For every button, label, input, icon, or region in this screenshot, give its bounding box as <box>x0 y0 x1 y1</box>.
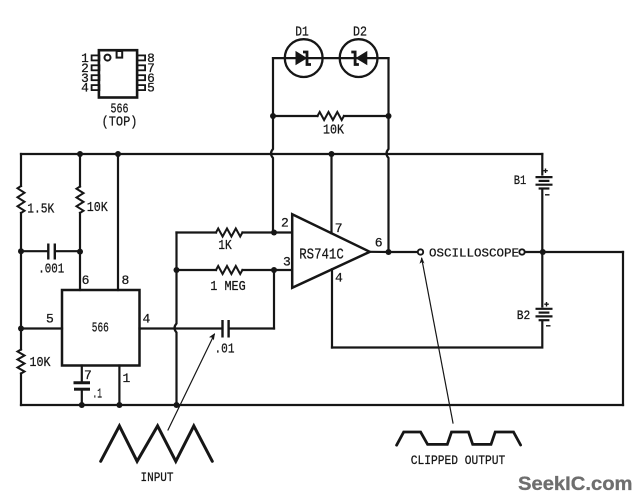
junction dot pin1 ground <box>116 402 122 408</box>
battery B1 <box>536 169 553 195</box>
junction dot feedback left <box>270 113 276 119</box>
IC package 566 top view body <box>99 50 137 97</box>
junction dot bus at 10K resistor top <box>77 151 83 157</box>
IC package notch square <box>117 51 123 58</box>
svg-text:B2: B2 <box>517 308 531 323</box>
wire 566 pin 7 <box>81 366 83 382</box>
label .1 <box>93 387 103 403</box>
junction dot bus at op-amp pin 7 <box>329 151 335 157</box>
junction dot output node <box>386 249 392 255</box>
resistor 1.5K <box>18 186 25 213</box>
label pin 7 op-amp <box>335 221 343 236</box>
svg-text:3: 3 <box>283 255 291 270</box>
label pin 4 of 566 <box>143 312 151 327</box>
pointer arrow to .01 capacitor <box>168 333 215 430</box>
wire op-amp output <box>370 251 418 253</box>
resistor 10K feedback <box>273 112 389 120</box>
wire ground leg from 1K left end down <box>175 233 177 406</box>
wire 566 pin 6 <box>79 252 81 290</box>
label 1K <box>218 238 232 254</box>
terminal circle oscilloscope right <box>519 249 524 254</box>
label pin 5 <box>46 312 54 327</box>
resistor 1 MEG <box>177 266 275 274</box>
wire midpoint to B2 <box>541 252 543 307</box>
junction dot op-amp pin3 <box>271 267 277 273</box>
resistor 10K vertical at pin6 column <box>77 154 84 252</box>
svg-text:2: 2 <box>281 216 289 231</box>
label 1.5K <box>27 202 54 218</box>
svg-text:1 MEG: 1 MEG <box>210 279 246 295</box>
svg-text:(TOP): (TOP) <box>102 115 138 131</box>
label INPUT <box>141 470 174 485</box>
resistor 10K lower left <box>18 350 25 374</box>
label D1 <box>295 24 309 40</box>
junction dot 1MEG left <box>174 267 180 273</box>
wire op-amp pin 7 to bus <box>330 154 332 233</box>
label B1 <box>514 173 527 188</box>
wire 566 pin 4 to capacitor <box>140 327 222 329</box>
wire into op-amp pin 2 <box>274 231 292 233</box>
wire left rail lower to ground bus <box>20 374 22 406</box>
svg-text:10K: 10K <box>30 355 51 371</box>
label pin 4 op-amp <box>335 270 343 285</box>
svg-text:7: 7 <box>335 221 343 236</box>
capacitor .01 <box>223 320 275 338</box>
IC package left pin numbers 1 2 3 4 <box>81 51 89 96</box>
svg-text:1K: 1K <box>218 238 232 254</box>
svg-text:OSCILLOSCOPE: OSCILLOSCOPE <box>429 247 519 261</box>
label OSCILLOSCOPE <box>429 247 519 261</box>
IC package pin-1 dot <box>105 55 111 61</box>
wire left rail middle <box>20 213 22 350</box>
IC package right pin numbers 8 7 6 5 <box>147 51 155 96</box>
svg-text:RS741C: RS741C <box>299 246 344 263</box>
IC U1 566 box <box>62 290 140 366</box>
svg-text:4: 4 <box>143 312 151 327</box>
label 1 MEG <box>210 279 246 295</box>
svg-text:INPUT: INPUT <box>141 470 174 485</box>
wire feedback left leg crossing bus down to pin2 node <box>271 116 273 233</box>
diode D1 symbol <box>296 52 311 65</box>
label pin 8 <box>121 273 129 288</box>
svg-text:.1: .1 <box>93 387 103 403</box>
svg-text:4: 4 <box>81 81 89 96</box>
svg-text:B1: B1 <box>514 173 527 188</box>
svg-text:CLIPPED OUTPUT: CLIPPED OUTPUT <box>411 453 506 468</box>
svg-text:6: 6 <box>375 236 383 251</box>
svg-text:5: 5 <box>147 81 155 96</box>
junction dot ground leg at bus <box>174 402 180 408</box>
label B2 <box>517 308 531 323</box>
IC package label 566 <box>111 102 129 118</box>
wire oscilloscope right to battery node <box>525 251 623 253</box>
svg-text:1: 1 <box>123 371 131 386</box>
svg-text:.01: .01 <box>215 342 235 358</box>
svg-text:8: 8 <box>121 273 129 288</box>
svg-text:6: 6 <box>82 273 90 288</box>
diode D1 circle <box>285 39 323 77</box>
junction dot pin5 left rail <box>18 326 24 332</box>
svg-text:566: 566 <box>92 321 109 337</box>
diode D2 circle <box>340 39 378 77</box>
resistor 1K <box>177 229 275 237</box>
wire diode branch horizontal <box>273 57 389 59</box>
svg-text:D1: D1 <box>295 24 309 40</box>
label .001 <box>38 262 64 278</box>
svg-text:10K: 10K <box>323 123 344 139</box>
label RS741C <box>299 246 344 263</box>
terminal circle oscilloscope left <box>418 249 423 254</box>
wire B1 to midpoint <box>541 190 543 252</box>
wire cap up to op-amp pin 3 node <box>273 270 275 329</box>
diode D2 symbol <box>351 52 367 65</box>
junction dot op-amp pin2 <box>271 230 277 236</box>
label CLIPPED OUTPUT <box>411 453 506 468</box>
wire diode branch right leg down <box>387 58 389 116</box>
IC package left pin stubs <box>92 55 100 90</box>
IC package right pin stubs <box>137 55 145 90</box>
wire V+ top bus <box>21 153 542 155</box>
pointer arrow to oscilloscope terminal <box>420 257 454 423</box>
svg-text:SeekIC.com: SeekIC.com <box>518 473 633 495</box>
svg-text:D2: D2 <box>353 24 367 40</box>
junction dot bus at pin 8 <box>115 151 121 157</box>
svg-text:4: 4 <box>335 270 343 285</box>
wire 566 pin 5 <box>21 327 62 329</box>
junction dot battery midpoint <box>540 249 546 255</box>
wire 566 pin 1 <box>118 366 120 406</box>
junction dot pin7 ground <box>79 402 85 408</box>
wire into op-amp pin 3 <box>274 269 292 271</box>
waveform CLIPPED OUTPUT <box>397 432 521 445</box>
label 10K lower left <box>30 355 51 371</box>
label pin 7 of 566 <box>84 368 92 383</box>
wire left rail upper <box>20 154 22 186</box>
label pin 6 op-amp <box>375 236 383 251</box>
wire bus corner down to battery B1 <box>541 154 543 175</box>
wire ground bottom bus <box>21 404 623 406</box>
battery B2 <box>536 302 553 326</box>
svg-text:7: 7 <box>84 368 92 383</box>
label pin 3 <box>283 255 291 270</box>
label pin 6 <box>82 273 90 288</box>
op-amp U2 RS741C <box>292 214 370 288</box>
junction dot feedback right <box>386 113 392 119</box>
svg-text:.001: .001 <box>38 262 64 278</box>
wire op-amp pin 4 down <box>331 269 333 347</box>
svg-text:10K: 10K <box>87 200 108 216</box>
label D2 <box>353 24 367 40</box>
wire diode branch left leg down to feedback node <box>272 58 274 116</box>
watermark SeekIC.com <box>518 473 633 495</box>
svg-text:5: 5 <box>46 312 54 327</box>
label .01 <box>215 342 235 358</box>
svg-text:1.5K: 1.5K <box>27 202 54 218</box>
IC package label (TOP) <box>102 115 138 131</box>
label 10K mid <box>87 200 108 216</box>
capacitor .1 <box>74 383 91 405</box>
wire B2 down and V- line to op-amp pin4 <box>332 322 542 348</box>
wire feedback right leg crossing bus down to output node <box>387 116 389 252</box>
label pin 2 <box>281 216 289 231</box>
label 10K feedback <box>323 123 344 139</box>
junction dot .001 to pin6 <box>77 249 83 255</box>
wire 566 pin 8 <box>117 154 119 290</box>
junction dot .001 left rail <box>18 248 24 254</box>
capacitor .001 <box>21 244 80 260</box>
label 566 in box <box>92 321 109 337</box>
wire right rail down <box>622 252 624 405</box>
label pin 1 of 566 <box>123 371 131 386</box>
waveform INPUT triangle wave <box>101 426 213 461</box>
